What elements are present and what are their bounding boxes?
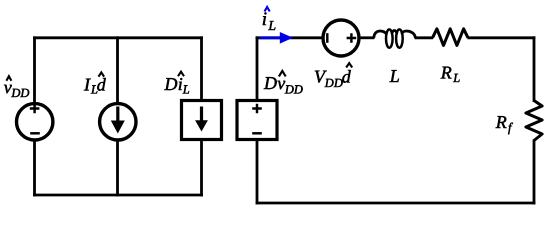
wire: left loop top <box>33 36 203 39</box>
svg-text:I: I <box>83 75 91 95</box>
wire: right loop bottom <box>256 202 536 205</box>
svg-text:D: D <box>164 74 178 94</box>
voltage source V_DD d-hat <box>323 20 359 56</box>
svg-text:DD: DD <box>284 82 303 96</box>
inductor L <box>374 31 387 38</box>
resistor R_L zigzag <box>433 29 469 46</box>
voltage source v_DD (hat) <box>17 104 53 140</box>
dependent current source D i_L box <box>182 101 222 140</box>
wire: left vertical (source branch) <box>33 36 36 196</box>
plus inside circle <box>347 33 357 43</box>
minus inside box <box>252 132 262 134</box>
svg-text:L: L <box>182 83 190 97</box>
svg-text:i: i <box>262 9 267 30</box>
resistor R_f zigzag (vertical) <box>526 101 542 141</box>
svg-text:D: D <box>263 73 277 93</box>
wire: R_L to corner <box>468 36 536 39</box>
arrow inside current source I_L d-hat <box>116 107 119 124</box>
wire: between source and inductor <box>359 36 375 39</box>
dependent voltage source D v_DD box <box>237 101 277 140</box>
blue current arrow i_L <box>260 36 282 39</box>
wire: right loop top (left segment to source) <box>256 36 323 39</box>
wire: between inductor and R_L <box>415 36 434 39</box>
svg-text:d: d <box>342 66 352 86</box>
wire: middle branch <box>116 36 119 196</box>
plus inside box <box>252 104 262 114</box>
minus (vertical bar) inside circle <box>326 33 328 43</box>
svg-text:R: R <box>495 112 507 132</box>
svg-text:R: R <box>440 63 452 83</box>
svg-text:L: L <box>389 66 400 86</box>
svg-text:DD: DD <box>10 86 29 100</box>
current source I_L d-hat <box>100 104 136 140</box>
minus inside v_DD <box>30 132 40 134</box>
wire: left loop right branch <box>200 36 203 196</box>
svg-text:d: d <box>97 75 107 95</box>
svg-text:L: L <box>267 18 276 33</box>
wire: left loop bottom <box>33 194 203 197</box>
wire: right loop left branch <box>256 36 259 204</box>
svg-text:L: L <box>452 71 460 85</box>
svg-text:DD: DD <box>324 76 343 90</box>
arrow inside dependent current source box <box>200 107 203 123</box>
wire: right loop right branch <box>533 36 536 204</box>
plus inside v_DD <box>30 104 40 114</box>
